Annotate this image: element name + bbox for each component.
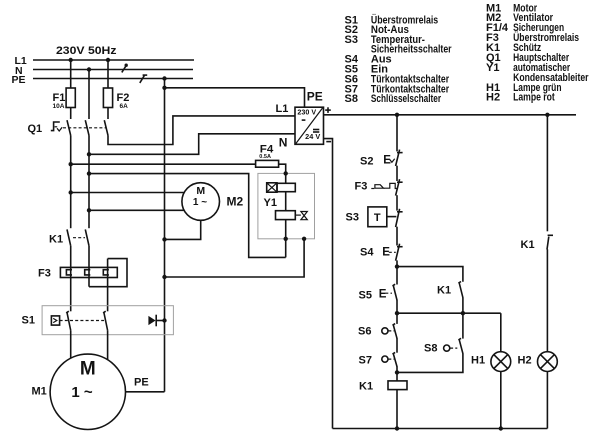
node junction L1/F1 [69,58,73,62]
wire junction to H1 [397,312,501,314]
wire F3 third pole down [107,259,109,312]
temperature switch S3 [346,207,403,227]
svg-text:M: M [196,185,205,197]
wire F2 to Q1 [107,108,109,120]
wire F3 to S3 [396,195,398,210]
wire L phase to fuse F4 [71,163,256,165]
svg-text:PE: PE [307,90,323,104]
svg-text:Y1: Y1 [264,197,277,209]
svg-text:K1: K1 [49,234,63,246]
wire S8 to junction [397,353,463,372]
node junction PE/M2 [162,237,166,241]
wire PE to M1 [126,391,165,393]
node junction bottom/H1 [499,426,503,430]
node PE tap mark [140,75,147,83]
contactor contacts K1 (power) [49,229,89,245]
node junction Y1 box bottom left [284,237,288,241]
wire F1 to Q1 [70,108,72,120]
svg-text:S8: S8 [424,343,437,355]
wire right branch drop [546,115,548,232]
wire PE vertical drop [164,79,166,392]
svg-text:0.5A: 0.5A [259,154,271,160]
on switch S5 [359,284,398,301]
wire PE rail [33,78,193,80]
wire Q1 pole2 down (N phase) [88,135,90,228]
svg-text:E: E [379,288,387,300]
svg-text:6A: 6A [120,103,129,110]
svg-text:M: M [80,359,96,380]
wire N phase to power-supply N input [89,134,295,155]
svg-text:F3: F3 [355,181,368,193]
node junction L/F4 [69,162,73,166]
node junction PE/Y1 [162,275,166,279]
emergency stop S2 [360,150,403,168]
svg-text:S3: S3 [345,34,358,46]
node junction L/M2 [69,190,73,194]
node junction S1/PE [162,318,166,322]
svg-text:S7: S7 [359,355,372,367]
motor M1 [32,354,126,429]
contact K1 right [521,235,554,251]
wire S3 to S4 [396,227,398,246]
wire H1 to bottom rail [500,372,502,429]
wire L1 rail [33,59,194,61]
lamp H2 red [518,352,558,372]
wire S4 to S5 [396,260,398,284]
motor M2 ventilator [182,183,244,221]
node junction PE tap [162,76,166,80]
wire N phase to Y1 return [89,174,286,258]
svg-text:1 ~: 1 ~ [71,384,93,401]
wire N to Q1 [88,70,90,120]
svg-text:Y1: Y1 [486,62,499,74]
svg-text:M1: M1 [32,386,47,398]
node junction S7/S8 [395,370,399,374]
wire K1 coil to bottom rail [396,390,398,429]
node junction S4/K1 branch [395,264,399,268]
svg-text:PE: PE [134,377,149,389]
svg-text:PE: PE [12,74,26,86]
contactor coil K1 [359,381,407,393]
node junction +rail/control [395,113,399,117]
wire Y1 to PE [165,239,305,277]
wire K1 right to H2 [546,249,548,351]
node junction L1/F2 [106,58,110,62]
wire L1 to F1 [70,60,72,88]
overload relay F3 [38,259,127,287]
node junction N/Y1 [87,171,91,175]
wire PE to power-supply PE input [165,88,305,107]
svg-text:24 V: 24 V [305,134,320,141]
off switch S4 [360,244,403,261]
svg-text:Lampe rot: Lampe rot [513,92,555,104]
node junction K1aux/H1 line [461,311,465,315]
svg-text:M2: M2 [227,195,244,209]
svg-text:S2: S2 [360,156,373,168]
svg-text:S3: S3 [346,212,359,224]
svg-text:1 ~: 1 ~ [193,197,207,208]
node junction +rail/right branch [545,113,549,117]
wire S2 to F3 contact [396,166,398,181]
wire bottom 0V rail [333,428,548,430]
wire 0V rail from minus terminal [324,139,333,429]
door contact S6 [358,324,397,339]
Y1 enclosure box [258,173,315,238]
node junction N/supply [87,152,91,156]
key switch S8 [424,338,463,354]
wire S6 to S7 [396,338,398,353]
svg-text:S6: S6 [358,326,371,338]
wire L phase to M2 [71,192,185,194]
svg-text:H2: H2 [486,92,500,104]
wire N rail [33,69,193,71]
svg-text:Q1: Q1 [28,123,43,135]
svg-text:K1: K1 [437,285,451,297]
svg-text:230 V: 230 V [297,109,316,116]
node junction S5/H1 line [395,311,399,315]
overload contact F3 [355,179,403,195]
wire L1 to F2 [107,60,109,88]
svg-text:S8: S8 [345,93,358,105]
auxiliary contact K1 [437,282,463,298]
wire S8 branch top [462,313,464,338]
wire M2 to PE [165,220,201,239]
lamp H1 green [471,352,511,372]
node N tap mark [122,63,128,72]
node junction N tap [87,67,91,71]
fuse F1 [53,88,76,110]
svg-text:K1: K1 [359,381,373,393]
svg-text:K1: K1 [521,239,535,251]
wire S1 pole2 to M1 [107,330,109,360]
fuse F2 [103,88,129,110]
wire Q1 pole3 to power-supply L1 input [108,116,295,145]
legend column 1 [345,13,453,105]
svg-text:S1: S1 [22,315,35,327]
wire K1 pole1 to F3 [70,246,72,311]
svg-text:H1: H1 [471,355,485,367]
svg-text:H2: H2 [518,355,532,367]
node junction N/M2 [87,208,91,212]
svg-text:N: N [279,136,288,150]
svg-text:Schlüsselschalter: Schlüsselschalter [371,93,442,105]
wire S7 to K1 coil [396,366,398,381]
legend column 2 [486,3,589,104]
solenoid valve Y1 [264,183,308,258]
wire Q1 pole1 down (L phase) [70,135,72,228]
wire H1 drop [500,313,502,352]
fuse F4 [256,144,279,168]
wire +24V rail [324,114,577,116]
wire S1 pole1 to M1 [70,330,72,358]
wire control main drop from + [396,115,398,152]
door switch S1 [22,306,174,335]
wire K1 aux to junction [462,297,464,313]
wire K1 pole2 to F3 [88,246,90,287]
main switch Q1 [28,120,109,135]
wire N phase to M2 [89,209,184,211]
node junction Y1 box top [284,171,288,175]
svg-text:F3: F3 [38,268,51,280]
svg-text:L1: L1 [276,103,289,115]
svg-text:230V 50Hz: 230V 50Hz [56,45,117,57]
svg-text:S5: S5 [359,290,372,302]
wire branch to K1 aux contact [397,267,463,282]
node junction PE branch [162,86,166,90]
door contact S7 [359,352,398,366]
wire S5 to S6 [396,300,398,324]
svg-text:S4: S4 [360,247,374,259]
power supply U1 230V/24V [276,90,332,150]
wire H2 to bottom rail [546,372,548,429]
node junction Y1 box bottom right [302,237,306,241]
svg-text:10A: 10A [53,103,65,110]
wire F4 to Y1 [279,164,286,183]
node junction bottom/K1 coil [395,426,399,430]
svg-text:T: T [374,212,381,224]
